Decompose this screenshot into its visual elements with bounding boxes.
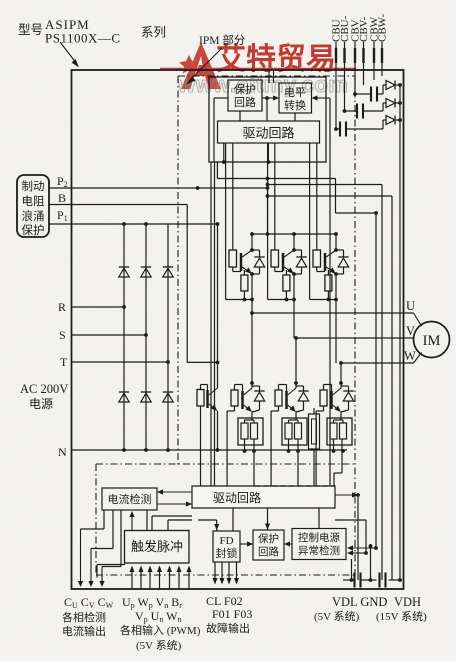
svg-text:U: U (406, 299, 415, 313)
wire T input (72, 360, 170, 364)
diode freewheel upper D3f (334, 248, 349, 276)
svg-text:故障输出: 故障输出 (206, 621, 250, 635)
diode bootstrap D1b (383, 81, 402, 95)
block 电流检测 (102, 488, 157, 510)
wire N negative bus (72, 448, 347, 452)
wire rectifier leg 2 vertical (145, 224, 147, 450)
wire collector drop leg 2 (293, 234, 295, 250)
resistor gate lower R4g (227, 385, 242, 487)
transistor IGBT Q2 upper (275, 250, 294, 274)
resistor gate lower R5g (271, 385, 286, 487)
svg-text:触发脉冲: 触发脉冲 (131, 539, 183, 554)
wire rectifier leg 1 vertical (123, 224, 125, 450)
svg-text:保护: 保护 (22, 223, 45, 237)
watermark red underline (160, 68, 356, 70)
rectifier diode D3 (163, 267, 173, 277)
rectifier diode D4 (119, 392, 129, 402)
wire VDL feed vertical (357, 495, 359, 580)
label 5V and 15V systems (314, 610, 427, 623)
transistor IGBT Q7 brake (208, 224, 220, 452)
svg-text:封锁: 封锁 (216, 546, 238, 560)
arrow current-detect to drive (157, 501, 192, 506)
block 触发脉冲 (125, 531, 190, 564)
svg-text:系列: 系列 (141, 26, 166, 40)
terminal labels Up Wp Vn Br (122, 595, 182, 624)
diode freewheel upper D2f (292, 248, 307, 276)
svg-text:T: T (60, 355, 68, 369)
wire trigger to current-detect arrow (129, 511, 134, 530)
arrow supply into detect 2 (347, 550, 368, 555)
wire rectifier leg 3 vertical (167, 224, 169, 450)
capacitor bootstrap C3 (336, 122, 383, 137)
capacitor VDH filter (380, 573, 386, 588)
svg-text:各相输入 (PWM): 各相输入 (PWM) (120, 623, 201, 637)
svg-text:转换: 转换 (284, 98, 306, 112)
block 驱动回路 (upper) (218, 121, 320, 143)
resistor gate upper R3g (313, 143, 321, 267)
wire level-shift feed down (329, 98, 331, 486)
terminal labels VDL GND VDH (332, 595, 421, 609)
wire phase to collector lower leg 3 (340, 363, 342, 388)
svg-text:回路: 回路 (258, 545, 279, 558)
motor IM (414, 313, 450, 363)
rectifier diode D2 (141, 267, 151, 277)
arrow supply into detect 1 (347, 545, 378, 550)
wire sense output leg 2 (297, 439, 299, 486)
svg-text:电平: 电平 (284, 86, 306, 99)
brake resistor surge protection box 制动电阻浪涌保护 (17, 175, 49, 237)
svg-text:(5V 系统): (5V 系统) (314, 610, 360, 623)
svg-text:异常检测: 异常检测 (298, 544, 340, 557)
capacitor CBW external (374, 48, 382, 63)
transistor IGBT Q1 upper (233, 250, 252, 274)
svg-text:浪涌: 浪涌 (22, 209, 45, 223)
wire detect feed vertical (335, 520, 366, 553)
rectifier diode D6 (163, 392, 173, 402)
svg-text:制动: 制动 (22, 180, 45, 193)
wire S input (72, 333, 148, 337)
wire CB terminal drops (334, 42, 382, 131)
svg-text:F01 F03: F01 F03 (212, 607, 252, 621)
resistor current sense pair leg 2 (282, 412, 307, 445)
capacitor bootstrap C1 (355, 87, 383, 102)
terminal label P1 (57, 208, 68, 223)
IPM boundary dash-dot left edge upper (177, 76, 179, 465)
resistor gate-emitter upper R1e (241, 270, 248, 300)
leader arrow to IPM boundary (186, 48, 222, 85)
capacitor CBV external (355, 48, 364, 63)
svg-text:驱动回路: 驱动回路 (242, 126, 294, 141)
terminal label W (404, 349, 416, 363)
diode freewheel lower D4f (250, 381, 265, 412)
wire GND rail (369, 544, 373, 582)
wire protection to drive (265, 508, 270, 530)
svg-text:PS1100X—C: PS1100X—C (45, 31, 121, 46)
wire trigger to drive (152, 516, 192, 530)
resistor current sense pair leg 1 (238, 412, 263, 445)
terminal arrows fault outputs (213, 562, 240, 585)
diode freewheel lower D6f (339, 381, 354, 412)
svg-text:B: B (58, 191, 66, 205)
svg-text:Vp Un Wn: Vp Un Wn (135, 609, 181, 624)
svg-text:电阻: 电阻 (22, 195, 45, 208)
wire sense output leg 1 (253, 439, 255, 486)
wire emitter return leg 1 (226, 143, 254, 301)
diode bootstrap D2b (383, 99, 402, 112)
svg-text:保护: 保护 (258, 532, 279, 545)
svg-text:AC 200V: AC 200V (20, 382, 68, 396)
capacitor bootstrap C2 (345, 104, 384, 119)
svg-text:回路: 回路 (234, 96, 256, 109)
wire P2 bus (49, 179, 269, 236)
terminal label U (406, 299, 415, 313)
wire R input (72, 305, 126, 309)
wire VDH rail (399, 85, 401, 580)
arrow detect to protection (284, 541, 292, 546)
transistor IGBT Q3 upper (317, 250, 336, 274)
block FD 封锁 (213, 531, 240, 562)
watermark red logo A (179, 42, 221, 89)
resistor gate-emitter upper R2e (283, 270, 290, 300)
arrow FD to protection (240, 541, 253, 546)
block 保护回路 (upper) (228, 80, 262, 111)
wire supply branch 2 (266, 183, 382, 580)
thermistor brake element (309, 408, 320, 486)
svg-text:(5V 系统): (5V 系统) (136, 639, 182, 652)
terminal label S (59, 328, 66, 342)
svg-text:IPM 部分: IPM 部分 (199, 33, 246, 47)
control IC box (209, 77, 326, 162)
svg-text:N: N (58, 445, 67, 459)
wire phase V (294, 336, 414, 340)
wire bottom supply bus (343, 578, 402, 582)
label 故障输出 (206, 621, 250, 635)
transistor IGBT Q6 lower (332, 388, 342, 412)
block 驱动回路 (lower) (192, 486, 335, 508)
svg-text:IM: IM (423, 333, 441, 349)
IPM boundary dash-dot middle horizontal (96, 463, 355, 465)
wire sense output leg 3 (334, 439, 342, 486)
wire P1 rectifier positive bus (49, 222, 219, 226)
wire feedback left of protection block (214, 98, 228, 162)
wire emitter to phase leg 3 (335, 274, 337, 363)
wire B line to brake chopper (49, 205, 219, 365)
wire emitter to phase leg 2 (293, 274, 295, 338)
svg-text:W: W (404, 349, 416, 363)
svg-text:型号: 型号 (18, 23, 43, 37)
wire emitter return leg 2 (268, 143, 296, 301)
svg-text:R: R (58, 300, 66, 314)
terminal label R (58, 300, 66, 314)
svg-text:电流检测: 电流检测 (108, 492, 152, 506)
watermark text www.aitmy.com (177, 72, 348, 97)
svg-text:FD: FD (219, 535, 233, 547)
terminal labels CL F02 F01 F03 (206, 594, 252, 621)
svg-text:保护: 保护 (234, 82, 256, 96)
resistor current sense pair leg 3 (327, 412, 352, 445)
arrow drive to current-detect (157, 489, 192, 494)
outer enclosure box (72, 70, 404, 589)
rectifier diode D1 (119, 267, 129, 277)
block 电平转换 (279, 83, 312, 113)
svg-text:驱动回路: 驱动回路 (213, 490, 261, 505)
wire sense box to N bus leg 1 (243, 439, 256, 453)
block 控制电源异常检测 (292, 529, 346, 560)
capacitor VDL filter (355, 573, 361, 588)
wire level-shift to drive circuit (240, 111, 295, 121)
wire FD signal pair (211, 162, 215, 486)
svg-text:电流输出: 电流输出 (62, 624, 106, 638)
wire into level-shift right side (312, 95, 331, 100)
capacitor CBU external (336, 48, 345, 63)
wire phase to collector lower leg 1 (251, 313, 253, 388)
diode freewheel lower D5f (294, 381, 309, 412)
wire collector drop leg 1 (251, 234, 253, 250)
IPM boundary dash-dot bottom edge (96, 574, 355, 576)
IPM boundary dash-dot top edge (178, 75, 355, 77)
label IPM 部分 (199, 33, 246, 47)
wire phase W (339, 361, 413, 365)
leader arrow to outer box corner (60, 42, 79, 68)
wire stubs below drive circuit (222, 143, 270, 164)
label 各相检测电流输出 (62, 610, 106, 638)
terminal arrows PWM inputs (130, 566, 192, 590)
wire trigger ground tie (97, 565, 125, 578)
title label 型号 ASIPM PS1100X-C 系列 (18, 17, 166, 46)
transistor IGBT Q4 lower (243, 388, 253, 412)
terminal label P2 (57, 174, 68, 189)
terminal label T (60, 355, 68, 369)
rectifier diode D5 (141, 392, 151, 402)
wire VDL rail (350, 559, 354, 582)
svg-text:VDL GND: VDL GND (332, 595, 387, 609)
terminal arrows current outputs (78, 529, 105, 587)
terminal label V (406, 324, 415, 338)
svg-text:(15V 系统): (15V 系统) (376, 610, 427, 623)
svg-text:CBW-: CBW- (377, 14, 389, 42)
terminal labels CBU CBU- CBV CBV- CBW CBW- (331, 14, 389, 42)
diode freewheel upper D1f (250, 248, 265, 276)
svg-text:控制电源: 控制电源 (298, 531, 340, 544)
terminal label N (58, 445, 67, 459)
wire collector drop leg 3 (335, 234, 337, 250)
transistor IGBT Q5 lower (287, 388, 297, 412)
wire protection to level-shift with arrow (262, 95, 279, 121)
resistor gate upper R1g (229, 143, 237, 267)
label AC 200V 电源 (20, 382, 68, 411)
resistor gate lower R6g (316, 385, 331, 487)
wire supply branch 3 (266, 194, 392, 580)
wire sense box to N bus leg 3 (332, 439, 345, 453)
svg-text:CL F02: CL F02 (206, 594, 243, 608)
wire emitter return leg 3 (310, 143, 338, 301)
wire supply branch 1 (217, 162, 378, 548)
svg-text:S: S (59, 328, 66, 342)
resistor gate-emitter upper R3e (325, 270, 332, 300)
wire phase to collector lower leg 2 (295, 338, 297, 388)
wire current output routing (81, 510, 148, 567)
watermark text 艾特贸易 (216, 43, 336, 76)
wire drive to detect block (318, 508, 320, 529)
terminal labels CU CV CW (64, 595, 114, 610)
wire supply taps from top (269, 70, 274, 83)
block 保护回路 (lower) (253, 530, 284, 560)
IPM boundary dash-dot left edge lower (95, 464, 97, 575)
wire phase U (250, 311, 413, 315)
IPM boundary dash-dot right edge (354, 76, 356, 575)
resistor gate brake R7g (197, 385, 208, 487)
label 各相输入 PWM 5V系统 (120, 623, 201, 652)
wire drive to FD (198, 508, 233, 531)
svg-text:各相检测: 各相检测 (62, 610, 106, 624)
arrow drive output right (335, 492, 360, 497)
diode bootstrap D3b (383, 116, 402, 130)
svg-text:VDH: VDH (394, 595, 421, 609)
resistor gate upper R2g (271, 143, 279, 267)
terminal label B (58, 191, 66, 205)
svg-text:电源: 电源 (29, 397, 53, 411)
wire emitter to phase leg 1 (251, 274, 253, 313)
wire upper collector bus (250, 232, 338, 236)
wire sense box to N bus leg 2 (287, 439, 300, 453)
